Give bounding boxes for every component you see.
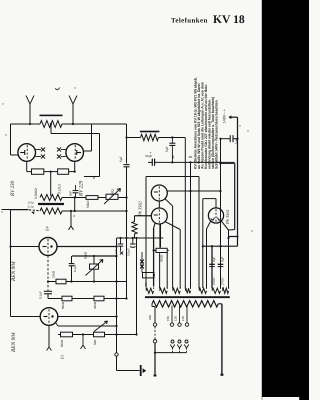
svg-text:Schaltbild 140V~ Netzanschluss: Schaltbild 140V~ Netzanschluss beachten [215,100,219,169]
svg-text:RV 230: RV 230 [10,180,16,197]
svg-text:RV 229: RV 229 [79,180,85,197]
svg-text:0,1μF: 0,1μF [73,264,77,272]
svg-text:50: 50 [92,175,96,179]
svg-text:8μF: 8μF [212,256,216,262]
svg-text:2700~: 2700~ [212,276,216,285]
svg-text:E1: E1 [60,355,65,360]
svg-text:REN 904: REN 904 [11,261,17,282]
svg-text:30kΩ: 30kΩ [93,301,97,309]
svg-text:50kΩ: 50kΩ [61,301,65,309]
svg-text:0,1μF: 0,1μF [114,249,118,257]
svg-text:5μF: 5μF [165,146,169,152]
svg-text:0,1μF: 0,1μF [39,291,43,299]
svg-text:140V~ +: 140V~ + [222,108,226,123]
svg-text:0,5μF: 0,5μF [127,248,131,256]
svg-text:Telefunken: Telefunken [171,18,208,25]
svg-text:+: + [150,151,152,155]
svg-text:5kΩ: 5kΩ [93,339,97,345]
svg-text:125: 125 [174,316,178,321]
svg-text:0,1/0,2: 0,1/0,2 [58,184,62,194]
svg-text:500: 500 [144,282,148,287]
svg-text:+: + [73,213,76,218]
svg-text:150: 150 [166,316,170,321]
svg-text:5nF: 5nF [69,191,73,196]
svg-text:5μF: 5μF [234,138,238,144]
svg-text:110: 110 [181,316,185,321]
svg-text:Ph 3561: Ph 3561 [225,209,230,225]
svg-text:0,5MΩ+: 0,5MΩ+ [34,187,38,199]
svg-text:220: 220 [148,315,152,320]
svg-text:E4: E4 [45,226,50,232]
svg-text:15kΩ: 15kΩ [52,270,56,278]
svg-text:REN 904: REN 904 [11,332,17,353]
svg-text:1MΩ: 1MΩ [111,189,115,196]
svg-text:KV 18: KV 18 [213,13,245,26]
svg-text:8μF: 8μF [220,256,224,262]
svg-text:5μF: 5μF [119,156,123,162]
svg-text:50kΩ: 50kΩ [60,339,64,347]
svg-text:50kΩ: 50kΩ [84,251,88,259]
svg-text:Ph 3582: Ph 3582 [138,200,143,217]
svg-text:2700~: 2700~ [220,276,224,285]
svg-text:50kΩ: 50kΩ [86,200,90,208]
svg-text:0,1μ: 0,1μ [28,205,34,209]
